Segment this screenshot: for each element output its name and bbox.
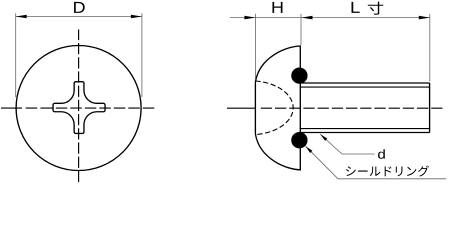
dimension D arrow left [16, 15, 27, 19]
label L (of L寸) [352, 2, 360, 13]
label H [272, 2, 282, 13]
H/L shared extension line [300, 14, 302, 45]
dimension D extension line left [15, 13, 17, 97]
dimension D line [16, 16, 142, 18]
label D [74, 2, 85, 13]
L arrow right (pointing right) [419, 16, 430, 20]
leader line for d [320, 134, 374, 154]
phillips cross recess [53, 82, 105, 134]
H extension line left [254, 14, 256, 80]
H arrow left (outside, pointing right) [244, 16, 255, 20]
leader line for seal ring label [306, 146, 447, 179]
seal ring bottom (filled) [291, 132, 307, 148]
centerline vertical (left view) [78, 30, 80, 185]
L extension line right [429, 14, 431, 82]
leader arrow for seal ring label [306, 146, 313, 153]
screw head outline (side view) [255, 46, 300, 170]
seal ring top (filled) [291, 67, 307, 83]
shank end face [429, 83, 431, 133]
L arrow left (pointing left) [302, 16, 313, 20]
screw head outline (front view circle) [16, 46, 141, 171]
label d [378, 149, 385, 158]
thread line bottom [300, 128, 429, 130]
H and L dimension line [230, 17, 430, 19]
label シールドリング (seal ring) [346, 166, 356, 176]
thread line top [300, 86, 429, 88]
hidden recess arc (dashed) [255, 81, 293, 135]
shank bottom edge [300, 132, 429, 134]
dimension D extension line right [141, 13, 143, 97]
dimension D arrow right [131, 15, 142, 19]
shank top edge [300, 82, 429, 84]
leader arrow for d [320, 134, 327, 141]
centerline horizontal (left view) [1, 107, 157, 109]
label 寸 (dimension suffix) [368, 2, 384, 15]
centerline axis (side view) [227, 107, 443, 109]
